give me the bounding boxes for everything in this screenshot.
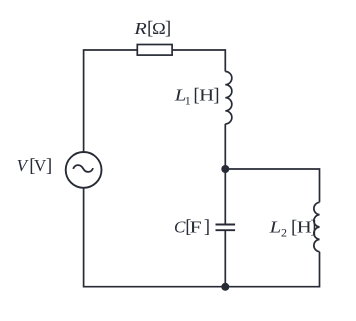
svg-text:R[Ω]: R[Ω] <box>133 18 171 39</box>
wire: capacitor to bottom node <box>224 230 226 287</box>
wire: top-left loop (resistor to top-left corner, down to source top) <box>84 50 138 152</box>
svg-text:L1[H]: L1[H] <box>174 85 220 107</box>
svg-text:V[V]: V[V] <box>17 156 53 177</box>
wire: L1 to middle node <box>224 124 226 169</box>
wire: middle vertical (node to capacitor) <box>224 169 226 225</box>
wire: source bottom, bottom rail and lower right riser <box>84 188 320 287</box>
inductor L1 <box>225 72 232 124</box>
svg-text:L2[H]: L2[H] <box>268 217 316 239</box>
source V <box>66 152 102 188</box>
svg-text:C[F]: C[F] <box>174 217 210 238</box>
capacitor C plates <box>216 225 236 231</box>
node: middle junction <box>221 165 229 173</box>
inductor L2 <box>314 202 320 251</box>
resistor R <box>137 45 172 56</box>
wire: middle node to right branch top corner <box>225 169 319 202</box>
wire: resistor to top-right corner, down to L1 <box>172 50 225 72</box>
node: bottom junction <box>221 283 229 291</box>
sine symbol <box>73 165 93 172</box>
